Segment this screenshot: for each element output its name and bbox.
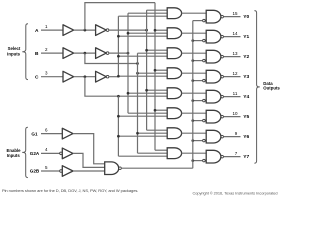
- wire and0 out: [182, 12, 207, 14]
- junction row6 mid: [136, 132, 139, 135]
- wire G2B input: [41, 170, 60, 172]
- bubble nand Y4 out: [221, 95, 224, 98]
- wire A true top route: [85, 3, 155, 31]
- svg-text:Y2: Y2: [243, 54, 249, 60]
- wire stub row6 bot: [118, 135, 167, 137]
- wire stub row6 mid: [138, 132, 168, 134]
- wire stub row5 mid: [128, 112, 167, 114]
- wire B-bar: [109, 52, 128, 54]
- wire Y4 out: [223, 96, 240, 98]
- bus A true vertical: [154, 3, 156, 151]
- junction row5 bot: [117, 115, 120, 118]
- wire Y7 out: [223, 156, 240, 158]
- junction enable Y3: [191, 79, 194, 82]
- wire and1 out: [182, 32, 207, 34]
- wire buffer A out: [74, 29, 96, 31]
- buffer C: [63, 71, 74, 82]
- and-gate row 0: [167, 8, 181, 19]
- svg-text:Select: Select: [8, 46, 21, 51]
- inverter B: [96, 48, 107, 59]
- wire Y1 out: [223, 36, 240, 38]
- wire and3 out: [182, 72, 207, 74]
- bubble nand Y0 out: [221, 15, 224, 18]
- wire enable stub Y3: [193, 80, 203, 82]
- wire G1 route: [73, 134, 105, 164]
- buffer G2A: [62, 148, 73, 159]
- nand-gate enable: [105, 162, 119, 175]
- wire Y3 out: [223, 76, 240, 78]
- nand-gate Y2: [206, 50, 221, 63]
- wire stub row3 bot: [118, 75, 167, 77]
- wire stub row0 top: [147, 9, 168, 11]
- bubble nand Y4 enable-in: [203, 99, 206, 102]
- bubble inverter B: [106, 52, 109, 55]
- inverter C: [96, 71, 107, 82]
- junction row3 top: [154, 69, 157, 72]
- svg-text:Y3: Y3: [243, 74, 249, 80]
- svg-text:11: 11: [233, 91, 238, 96]
- wire C true feed: [85, 77, 167, 97]
- junction enable Y6: [191, 139, 194, 142]
- wire G2B route: [73, 170, 105, 172]
- svg-text:Pin numbers shown are for the: Pin numbers shown are for the D, DB, DGV…: [2, 188, 138, 193]
- wire buffer B out: [74, 52, 96, 54]
- wire enable stub Y5: [193, 120, 203, 122]
- bubble nand Y2 out: [221, 55, 224, 58]
- junction row1 bot: [117, 35, 120, 38]
- wire B input: [41, 52, 63, 54]
- svg-text:A: A: [35, 28, 39, 34]
- svg-text:13: 13: [232, 51, 238, 56]
- and-gate row 7: [167, 148, 181, 159]
- wire stub row6 top: [147, 129, 168, 131]
- svg-text:Y1: Y1: [243, 34, 249, 40]
- bubble nand Y7 out: [221, 155, 224, 158]
- junction enable Y5: [191, 119, 194, 122]
- svg-text:Copyright © 2016, Texas Instru: Copyright © 2016, Texas Instruments Inco…: [192, 191, 277, 196]
- svg-text:Inputs: Inputs: [7, 153, 20, 158]
- nand-gate Y6: [206, 130, 221, 143]
- wire C-bar: [109, 76, 119, 78]
- wire Y5 out: [223, 116, 240, 118]
- bubble nand Y3 enable-in: [203, 79, 206, 82]
- wire stub row2 bot: [118, 55, 167, 57]
- bubble nand Y1 enable-in: [203, 39, 206, 42]
- wire stub row5 top: [155, 109, 167, 111]
- wire stub row2 top: [147, 49, 168, 51]
- svg-text:B: B: [35, 51, 39, 57]
- junction row2 bot: [117, 55, 120, 58]
- wire and7 out: [182, 152, 207, 154]
- buffer G2B: [62, 166, 73, 177]
- and-gate row 6: [167, 128, 181, 139]
- bubble G2B in: [60, 170, 63, 173]
- nand-gate Y1: [206, 30, 221, 43]
- svg-text:G2A: G2A: [30, 151, 40, 156]
- wire stub row1 top: [155, 29, 167, 31]
- svg-text:G2B: G2B: [30, 169, 40, 174]
- bubble nand Y5 out: [221, 115, 224, 118]
- bubble G2A in: [60, 152, 63, 155]
- wire G2A input: [41, 152, 60, 154]
- junction row3 bot: [117, 75, 120, 78]
- and-gate row 2: [167, 48, 181, 59]
- node C true tap: [84, 75, 87, 78]
- svg-text:Y5: Y5: [243, 114, 249, 120]
- wire stub row7 mid: [138, 152, 168, 154]
- wire stub row5 bot: [118, 115, 167, 117]
- wire A-bar: [109, 29, 147, 31]
- and-gate row 3: [167, 68, 181, 79]
- junction row1 mid: [127, 32, 130, 35]
- wire stub row4 top: [147, 89, 168, 91]
- nand-gate Y3: [206, 70, 221, 83]
- wire Y0 out: [223, 16, 240, 18]
- brace enable inputs: [22, 127, 28, 177]
- wire enable stub Y2: [193, 60, 203, 62]
- junction row3 mid: [136, 72, 139, 75]
- svg-text:14: 14: [232, 31, 238, 36]
- bubble nand Y3 out: [221, 75, 224, 78]
- buffer G1: [62, 128, 73, 139]
- and-gate row 1: [167, 28, 181, 39]
- junction enable Y7: [191, 159, 194, 162]
- wire stub row0 bot: [118, 15, 167, 17]
- buffer A: [63, 25, 74, 36]
- bubble nand Y2 enable-in: [203, 59, 206, 62]
- wire C input: [41, 76, 63, 78]
- junction A-bar: [145, 29, 148, 32]
- wire B true feed: [85, 53, 138, 63]
- bubble nand Y0 enable-in: [203, 19, 206, 22]
- bus enable vertical: [192, 21, 194, 169]
- wire Y2 out: [223, 56, 240, 58]
- wire stub row2 mid: [138, 52, 168, 54]
- junction enable Y2: [191, 59, 194, 62]
- nand-gate Y7: [206, 150, 221, 163]
- nand-gate Y4: [206, 90, 221, 103]
- wire and6 out: [182, 132, 207, 134]
- junction B true: [136, 62, 139, 65]
- node B true tap: [84, 52, 87, 55]
- junction row4 mid: [127, 92, 130, 95]
- wire stub row4 mid: [128, 92, 167, 94]
- buffer B: [63, 48, 74, 59]
- wire stub row1 bot: [118, 35, 167, 37]
- bubble nand Y5 enable-in: [203, 119, 206, 122]
- bubble enable out: [119, 167, 122, 170]
- junction row6 bot: [117, 135, 120, 138]
- nand-gate Y5: [206, 110, 221, 123]
- junction row2 top: [145, 49, 148, 52]
- and-gate row 4: [167, 88, 181, 99]
- wire stub row0 mid: [128, 12, 167, 14]
- svg-text:Outputs: Outputs: [263, 86, 280, 91]
- bus C-bar vertical: [117, 16, 119, 76]
- junction enable Y4: [191, 99, 194, 102]
- wire enable stub Y0: [193, 20, 203, 22]
- bus B true vertical: [137, 53, 139, 153]
- svg-text:Y0: Y0: [243, 14, 249, 20]
- wire enable stub Y6: [193, 140, 203, 142]
- wire enable out: [121, 167, 193, 169]
- wire and4 out: [182, 92, 207, 94]
- node A true tap: [84, 29, 87, 32]
- junction enable Y1: [191, 39, 194, 42]
- wire enable stub Y4: [193, 100, 203, 102]
- and-gate row 5: [167, 108, 181, 119]
- junction row1 top: [154, 29, 157, 32]
- bubble inverter C: [106, 75, 109, 78]
- bus A-bar vertical: [146, 10, 148, 130]
- brace data outputs: [254, 11, 259, 164]
- wire and2 out: [182, 52, 207, 54]
- wire stub row7 bot: [118, 155, 167, 157]
- svg-text:G1: G1: [31, 131, 38, 136]
- svg-text:Y7: Y7: [243, 154, 249, 160]
- bus C true vertical: [117, 96, 119, 156]
- junction C true: [117, 95, 120, 98]
- svg-text:15: 15: [232, 11, 238, 16]
- svg-text:Inputs: Inputs: [7, 52, 20, 57]
- bubble nand Y6 enable-in: [203, 139, 206, 142]
- junction row4 top: [145, 89, 148, 92]
- wire enable stub Y1: [193, 40, 203, 42]
- wire buffer C out: [74, 76, 96, 78]
- wire stub row3 mid: [138, 72, 168, 74]
- wire Y6 out: [223, 136, 240, 138]
- wire stub row7 top: [155, 149, 167, 151]
- svg-text:Y6: Y6: [243, 134, 249, 140]
- wire enable stub Y7: [193, 160, 203, 162]
- wire G2A route: [73, 153, 105, 167]
- junction B-bar: [127, 52, 130, 55]
- svg-text:C: C: [35, 74, 39, 80]
- bubble nand Y1 out: [221, 35, 224, 38]
- svg-text:Y4: Y4: [243, 94, 249, 100]
- wire and5 out: [182, 112, 207, 114]
- wire G1 input: [41, 133, 62, 135]
- bubble inverter A: [106, 29, 109, 32]
- svg-text:10: 10: [232, 111, 238, 116]
- bubble nand Y6 out: [221, 135, 224, 138]
- inverter A: [96, 25, 107, 36]
- junction row5 top: [154, 109, 157, 112]
- wire stub row1 mid: [128, 32, 167, 34]
- brace select inputs: [22, 24, 28, 80]
- wire A input: [41, 29, 63, 31]
- svg-text:12: 12: [232, 71, 238, 76]
- bubble nand Y7 enable-in: [203, 159, 206, 162]
- nand-gate Y0: [206, 10, 221, 23]
- bus B-bar vertical: [127, 13, 129, 113]
- wire stub row3 top: [155, 69, 167, 71]
